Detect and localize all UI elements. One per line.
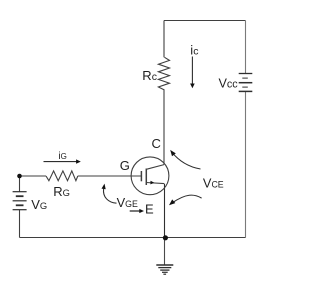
wire right upper (245, 21, 247, 74)
svg-text:RG: RG (53, 184, 70, 199)
svg-text:G: G (120, 158, 130, 173)
wire bottom (20, 237, 246, 239)
node A (gate junction) (17, 174, 22, 179)
svg-text:ic: ic (190, 43, 198, 58)
wire gate right (78, 175, 142, 177)
resistor Rc (158, 57, 169, 90)
node B (emitter-ground junction) (163, 235, 168, 240)
arrow VGE curved (102, 184, 117, 204)
wire gate left (20, 175, 47, 177)
resistor RG (46, 171, 78, 181)
wire emitter (164, 184, 166, 238)
wire left lower (19, 210, 21, 238)
wire collector upper (163, 21, 165, 58)
transistor Q1 (IGBT) (131, 157, 169, 195)
svg-text:Vcc: Vcc (219, 76, 239, 90)
arrow VCE upper (170, 150, 200, 169)
ground (156, 265, 173, 274)
wire right lower (245, 91, 247, 237)
current arrow ic (190, 57, 195, 89)
wire collector lower (163, 90, 165, 165)
wire top (164, 20, 246, 22)
current arrow iG (44, 159, 81, 163)
arrow VCE lower (169, 195, 202, 205)
wire left upper (19, 176, 21, 192)
svg-text:Rc: Rc (142, 68, 157, 83)
svg-text:VCE: VCE (203, 176, 224, 191)
svg-text:E: E (145, 202, 154, 217)
svg-text:iG: iG (58, 151, 66, 162)
wire ground stem (164, 238, 166, 265)
arrow VGE to E (130, 209, 144, 213)
battery VCC (239, 74, 253, 92)
battery VG (13, 192, 27, 210)
svg-text:C: C (152, 136, 161, 151)
svg-text:VGE: VGE (117, 195, 138, 210)
svg-text:VG: VG (31, 197, 47, 212)
